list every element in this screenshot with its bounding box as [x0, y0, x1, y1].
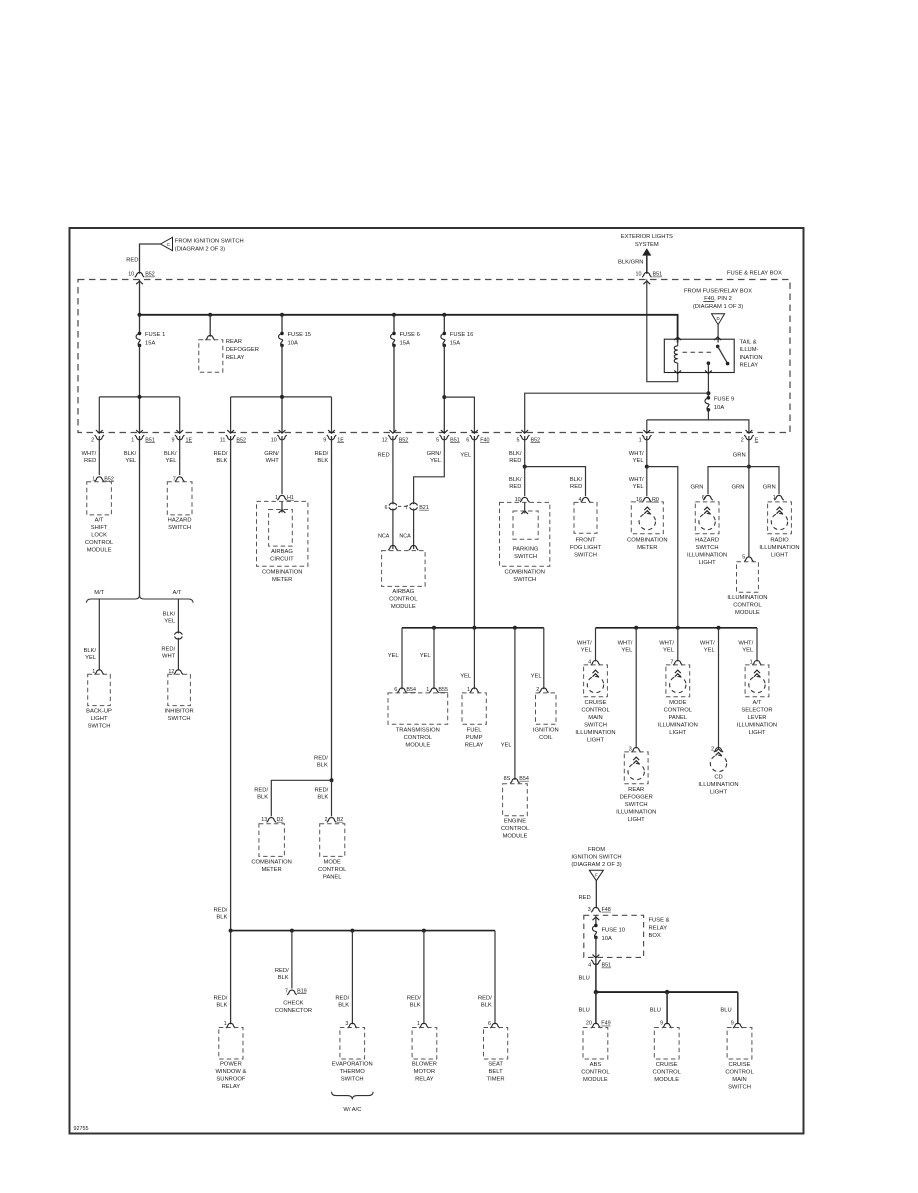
wire RED/BLK to seat belt timer	[494, 931, 496, 1025]
svg-text:6: 6	[394, 687, 397, 693]
junction GRN	[747, 465, 751, 469]
svg-text:HAZARD: HAZARD	[168, 518, 192, 524]
wire BLK/YEL to hazard switch	[179, 436, 181, 475]
svg-text:DEFOGGER: DEFOGGER	[620, 794, 653, 800]
svg-text:RELAY: RELAY	[740, 362, 759, 368]
svg-text:CD: CD	[714, 774, 722, 780]
svg-text:BLK: BLK	[338, 1003, 349, 1009]
wire into fuse 10	[595, 915, 597, 925]
svg-text:MODULE: MODULE	[391, 604, 416, 610]
wire to terminal 2	[98, 397, 100, 433]
svg-text:HAZARD: HAZARD	[695, 538, 719, 544]
split junction under fuse 16	[442, 395, 446, 399]
wire to terminal 9 1E right	[331, 397, 333, 433]
svg-text:D2: D2	[277, 817, 284, 823]
svg-text:GRN/: GRN/	[264, 451, 279, 457]
svg-text:BLK: BLK	[410, 1003, 421, 1009]
svg-text:CONNECTOR: CONNECTOR	[275, 1008, 312, 1014]
svg-text:RELAY: RELAY	[415, 1077, 434, 1083]
svg-text:1: 1	[131, 437, 134, 443]
svg-text:CIRCUIT: CIRCUIT	[270, 557, 294, 563]
svg-text:GRN: GRN	[733, 453, 746, 459]
fuse F1 15A	[138, 332, 142, 336]
fuse F10 10A	[594, 924, 598, 928]
svg-text:RELAY: RELAY	[649, 925, 668, 931]
svg-text:BELT: BELT	[489, 1069, 504, 1075]
svg-text:FUSE 16: FUSE 16	[450, 332, 474, 338]
svg-text:F48: F48	[602, 907, 611, 913]
svg-text:(DIAGRAM 1 OF 3): (DIAGRAM 1 OF 3)	[693, 304, 743, 310]
fuse box bottom terminal 2 E	[746, 430, 753, 433]
svg-text:BLK/: BLK/	[164, 451, 177, 457]
svg-text:8S: 8S	[504, 776, 511, 782]
svg-text:B54: B54	[519, 776, 529, 782]
svg-text:WHT/: WHT/	[629, 477, 644, 483]
wire WHT/RED to A/T shift lock control module	[98, 436, 100, 475]
wire from fuse 1 to split	[139, 345, 141, 432]
svg-text:BLK/: BLK/	[163, 612, 176, 618]
svg-text:CONTROL: CONTROL	[389, 597, 418, 603]
wire from terminal B51 down and over to relay coil	[647, 280, 678, 382]
svg-text:ILLUMINATION: ILLUMINATION	[737, 722, 777, 728]
wire RED/WHT to inhibitor switch	[177, 638, 179, 671]
wire from relay output to terminal 5 B52	[525, 393, 709, 432]
svg-text:ILLUMINATION: ILLUMINATION	[658, 722, 698, 728]
svg-text:YEL: YEL	[621, 648, 633, 654]
svg-text:MAIN: MAIN	[732, 1077, 747, 1083]
relay internal dashed link	[683, 351, 714, 353]
svg-text:WHT/: WHT/	[629, 451, 644, 457]
svg-text:9: 9	[323, 437, 326, 443]
svg-text:METER: METER	[637, 545, 657, 551]
svg-text:YEL: YEL	[430, 458, 442, 464]
svg-text:PARKING: PARKING	[513, 547, 539, 553]
WHT/YEL bus junction	[634, 626, 638, 630]
svg-text:YEL: YEL	[663, 648, 675, 654]
svg-text:SWITCH: SWITCH	[574, 553, 597, 559]
combination meter (dashed box)	[257, 501, 308, 566]
svg-text:SWITCH: SWITCH	[168, 716, 191, 722]
wire from bus to fuse 1	[139, 315, 141, 334]
inhibitor switch (dashed box)	[168, 674, 191, 705]
svg-text:MODULE: MODULE	[87, 548, 112, 554]
svg-text:MOTOR: MOTOR	[414, 1069, 435, 1075]
ignition coil (dashed box)	[536, 693, 557, 724]
svg-text:A/T: A/T	[752, 700, 761, 706]
svg-text:1E: 1E	[186, 437, 193, 443]
fuse F15 10A	[280, 332, 284, 336]
mode control panel illumination light	[677, 628, 679, 662]
svg-text:WHT/: WHT/	[81, 451, 96, 457]
svg-text:IGNITION SWITCH: IGNITION SWITCH	[571, 854, 621, 860]
wire BLK/YEL A/T branch	[177, 599, 179, 634]
svg-text:9: 9	[172, 437, 175, 443]
svg-text:BLK: BLK	[216, 915, 227, 921]
svg-text:10A: 10A	[714, 405, 724, 411]
svg-text:LOCK: LOCK	[91, 533, 107, 539]
wire to terminal 11 B52	[230, 397, 232, 433]
fuse box bottom terminal 2	[96, 430, 103, 433]
svg-text:MODULE: MODULE	[583, 1077, 608, 1083]
evaporation thermo switch (dashed box)	[340, 1028, 365, 1060]
svg-text:BLU: BLU	[579, 1008, 590, 1014]
svg-text:LIGHT: LIGHT	[771, 553, 789, 559]
svg-text:RED/: RED/	[161, 647, 175, 653]
svg-text:RELAY: RELAY	[465, 743, 484, 749]
svg-text:THERMO: THERMO	[340, 1069, 366, 1075]
wire GRN/YEL from terminal 5 B51 to airbag control module pin 7	[414, 436, 445, 504]
svg-text:10A: 10A	[288, 341, 298, 347]
fuse F6 15A	[392, 332, 396, 336]
svg-text:ENGINE: ENGINE	[504, 819, 526, 825]
svg-text:SWITCH: SWITCH	[88, 724, 111, 730]
svg-text:CRUISE: CRUISE	[585, 700, 607, 706]
svg-text:WHT: WHT	[162, 654, 176, 660]
svg-text:REAR: REAR	[226, 339, 242, 345]
svg-text:E: E	[755, 437, 759, 443]
wire YEL to ignition coil pin 2	[543, 628, 545, 689]
svg-text:PANEL: PANEL	[669, 715, 688, 721]
svg-text:15A: 15A	[145, 341, 155, 347]
svg-text:LIGHT: LIGHT	[628, 817, 646, 823]
svg-text:CONTROL: CONTROL	[733, 603, 762, 609]
svg-text:FUSE 15: FUSE 15	[288, 332, 312, 338]
svg-text:B51: B51	[145, 437, 155, 443]
bottom bus junction	[422, 929, 426, 933]
wire from fuse 6 to terminal 12 B52	[393, 345, 395, 432]
svg-text:ABS: ABS	[590, 1062, 602, 1068]
svg-text:SWITCH: SWITCH	[514, 554, 537, 560]
wire from bus to fuse 16	[443, 315, 445, 334]
airbag control module (dashed box)	[382, 551, 426, 587]
svg-text:COMBINATION: COMBINATION	[251, 860, 291, 866]
svg-text:NCA: NCA	[378, 534, 390, 540]
svg-text:FUSE 6: FUSE 6	[400, 332, 420, 338]
svg-text:MAIN: MAIN	[588, 715, 603, 721]
svg-text:FUSE 10: FUSE 10	[602, 928, 626, 934]
svg-text:5: 5	[436, 437, 439, 443]
svg-text:RED/: RED/	[314, 788, 328, 794]
svg-text:4: 4	[588, 963, 591, 969]
connector triangle D from fuse/relay box	[712, 314, 725, 325]
svg-text:RED: RED	[509, 458, 521, 464]
svg-text:CONTROL: CONTROL	[85, 540, 114, 546]
bus junction	[442, 313, 446, 317]
svg-text:SWITCH: SWITCH	[728, 1085, 751, 1091]
svg-text:12: 12	[382, 437, 388, 443]
wire from bus to fuse 6	[393, 315, 395, 334]
branch to front fog light switch	[525, 467, 586, 497]
svg-text:10: 10	[128, 272, 134, 278]
wire RED/BLK from terminal 11 B52 (long)	[230, 436, 232, 931]
svg-text:CHECK: CHECK	[283, 1001, 303, 1007]
wire YEL to engine control module pin 8S B54	[514, 628, 516, 780]
svg-text:COMBINATION: COMBINATION	[627, 538, 667, 544]
svg-text:GRN: GRN	[691, 485, 704, 491]
cruise control module (dashed box)	[654, 1028, 679, 1060]
svg-text:SHIFT: SHIFT	[91, 525, 108, 531]
svg-text:MODULE: MODULE	[405, 743, 430, 749]
split bus under fuse 15	[231, 396, 332, 398]
svg-text:WHT/: WHT/	[738, 641, 753, 647]
fuel pump relay (dashed box)	[462, 693, 486, 724]
svg-text:CONTROL: CONTROL	[725, 1070, 754, 1076]
transmission control module (dashed box)	[388, 693, 448, 724]
svg-text:INATION: INATION	[740, 355, 763, 361]
svg-text:GRN/: GRN/	[427, 451, 442, 457]
svg-text:SWITCH: SWITCH	[625, 802, 648, 808]
wire GRN from terminal 2 E	[748, 436, 750, 467]
svg-text:BLK: BLK	[278, 975, 289, 981]
svg-text:SWITCH: SWITCH	[513, 577, 536, 583]
svg-text:WHT/: WHT/	[577, 641, 592, 647]
svg-text:YEL: YEL	[742, 648, 754, 654]
fuse box bottom terminal 10	[279, 430, 286, 433]
svg-text:RELAY: RELAY	[222, 1084, 241, 1090]
svg-text:LIGHT: LIGHT	[587, 737, 605, 743]
svg-text:METER: METER	[272, 577, 292, 583]
wire from fuse 16 to split	[443, 345, 445, 432]
fuse box bottom terminal 1 B51	[136, 430, 143, 433]
svg-text:CONTROL: CONTROL	[653, 1070, 682, 1076]
svg-text:YEL: YEL	[85, 655, 97, 661]
svg-text:1: 1	[639, 437, 642, 443]
svg-text:SELECTOR: SELECTOR	[741, 707, 772, 713]
svg-text:F49: F49	[601, 1021, 610, 1027]
YEL bus junction	[432, 626, 436, 630]
svg-text:2: 2	[741, 437, 744, 443]
svg-text:6: 6	[488, 1021, 491, 1027]
wire BLK/YEL M/T branch to back-up light switch	[98, 599, 100, 671]
airbag circuit inner box	[281, 501, 283, 512]
svg-text:ILLUMINATION: ILLUMINATION	[687, 553, 727, 559]
branch GRN to radio illumination light	[749, 467, 779, 495]
fuse box bottom terminal 1	[643, 430, 650, 433]
wire RED continues to module	[392, 509, 394, 550]
svg-text:BLK/: BLK/	[509, 451, 522, 457]
svg-text:COMBINATION: COMBINATION	[262, 570, 302, 576]
WHT/YEL bus junction	[676, 626, 680, 630]
svg-text:10A: 10A	[602, 936, 612, 942]
cruise control main switch illumination light	[595, 628, 597, 662]
outer border frame	[70, 228, 804, 1134]
fuse box bottom terminal 11 B52	[227, 430, 234, 433]
wire from bus to fuse 15	[281, 315, 283, 334]
bottom bus junction	[350, 929, 354, 933]
svg-text:(DIAGRAM 2 OF 3): (DIAGRAM 2 OF 3)	[175, 246, 225, 252]
wire RED/BLK to check connector pin 7 B19	[291, 931, 293, 989]
svg-text:BLK/: BLK/	[84, 648, 97, 654]
hazard switch illumination light (dashed box)	[695, 502, 719, 534]
svg-text:BLK: BLK	[317, 763, 328, 769]
YEL bus junction	[472, 626, 476, 630]
A/T selector lever illumination light	[756, 628, 758, 662]
radio illumination light (dashed box)	[768, 502, 792, 534]
fuse box bottom terminal 9 1E	[328, 430, 335, 433]
wire RED/BLK to power window and sunroof relay	[230, 931, 232, 1025]
svg-text:METER: METER	[261, 867, 281, 873]
svg-text:COIL: COIL	[539, 735, 553, 741]
svg-text:RED: RED	[579, 895, 591, 901]
svg-text:B52: B52	[531, 437, 541, 443]
svg-text:SEAT: SEAT	[488, 1062, 503, 1068]
svg-text:BACK-UP: BACK-UP	[86, 709, 112, 715]
svg-text:WHT/: WHT/	[659, 641, 674, 647]
wire BLU to ABS control module pin 20 F49	[595, 992, 597, 1024]
svg-text:YEL: YEL	[531, 674, 543, 680]
svg-text:BLK: BLK	[481, 1003, 492, 1009]
wire BLU to cruise control main switch pin 9	[737, 992, 739, 1024]
svg-text:CONTROL: CONTROL	[581, 1070, 610, 1076]
svg-text:CONTROL: CONTROL	[404, 735, 433, 741]
wire GRN to illumination control module	[748, 467, 750, 557]
svg-text:AIRBAG: AIRBAG	[392, 589, 414, 595]
svg-text:WHT: WHT	[266, 458, 280, 464]
svg-text:B19: B19	[297, 988, 307, 994]
YEL distribution bus	[402, 627, 544, 629]
svg-text:RED: RED	[84, 458, 96, 464]
dashes between in-line connectors	[398, 505, 408, 507]
svg-text:BLU: BLU	[579, 976, 590, 982]
wire from fuse 9 to split	[707, 410, 709, 420]
svg-text:5: 5	[517, 437, 520, 443]
svg-text:TRANSMISSION: TRANSMISSION	[396, 728, 440, 734]
svg-text:FROM FUSE/RELAY BOX: FROM FUSE/RELAY BOX	[684, 288, 752, 294]
svg-text:BOX: BOX	[649, 933, 661, 939]
wire YEL to fuel pump relay pin 1	[473, 628, 475, 689]
rear defogger relay (dashed box)	[199, 340, 223, 373]
svg-text:D: D	[717, 316, 720, 321]
junction WHT/YEL	[645, 465, 649, 469]
svg-text:RED/: RED/	[214, 996, 228, 1002]
svg-text:RED: RED	[509, 484, 521, 490]
CD illumination light	[718, 628, 720, 749]
svg-text:LIGHT: LIGHT	[699, 560, 717, 566]
seat belt timer (dashed box)	[484, 1028, 508, 1060]
svg-text:FUSE 1: FUSE 1	[145, 332, 165, 338]
svg-text:YEL: YEL	[125, 458, 137, 464]
wire WHT/YEL from terminal 1	[646, 436, 648, 467]
svg-text:B21: B21	[419, 505, 429, 511]
svg-text:BLK: BLK	[317, 795, 328, 801]
svg-text:RED/: RED/	[214, 451, 228, 457]
A/T shift lock control module (dashed box)	[87, 482, 112, 515]
svg-text:ILLUMINATION: ILLUMINATION	[616, 809, 656, 815]
svg-text:YEL: YEL	[460, 453, 472, 459]
svg-text:MODE: MODE	[669, 700, 687, 706]
ABS control module (dashed box)	[583, 1028, 608, 1060]
svg-text:BLK: BLK	[317, 458, 328, 464]
svg-text:C: C	[167, 242, 170, 247]
svg-text:SYSTEM: SYSTEM	[635, 242, 659, 248]
svg-text:CRUISE: CRUISE	[656, 1062, 678, 1068]
branch RED/BLK to combination meter pin 13 D2	[271, 780, 331, 816]
svg-text:DEFOGGER: DEFOGGER	[226, 347, 259, 353]
svg-text:RED: RED	[377, 453, 389, 459]
svg-text:WHT/: WHT/	[618, 641, 633, 647]
svg-text:PUMP: PUMP	[466, 735, 483, 741]
svg-text:W/ A/C: W/ A/C	[343, 1107, 361, 1113]
svg-text:FRONT: FRONT	[576, 538, 596, 544]
connector triangle C from ignition switch	[161, 237, 173, 250]
wire to terminal 9 1E	[179, 397, 181, 433]
wire from triangle D to relay switch	[717, 325, 719, 343]
wire GRN/WHT to combination meter airbag circuit	[281, 436, 283, 494]
svg-text:SUNROOF: SUNROOF	[216, 1077, 245, 1083]
svg-text:BLK: BLK	[216, 1003, 227, 1009]
svg-text:1E: 1E	[337, 437, 344, 443]
svg-text:92755: 92755	[74, 1126, 89, 1132]
fuse box bottom terminal 9 1E	[176, 430, 183, 433]
split bus under fuse 1	[99, 396, 179, 398]
svg-text:BLOWER: BLOWER	[412, 1062, 437, 1068]
wire BLU to junction	[595, 963, 597, 992]
svg-text:15A: 15A	[450, 341, 460, 347]
svg-text:B52: B52	[145, 272, 155, 278]
in-line connector on inhibitor switch wire	[175, 632, 183, 635]
svg-text:(DIAGRAM 2 OF 3): (DIAGRAM 2 OF 3)	[571, 862, 621, 868]
parking switch inner box	[524, 502, 526, 513]
wire RED to airbag control module pin 6	[392, 436, 394, 504]
svg-text:B51: B51	[450, 437, 460, 443]
svg-text:LIGHT: LIGHT	[710, 789, 728, 795]
tail and illumination relay box	[664, 339, 734, 372]
junction at relay output	[706, 391, 710, 395]
svg-text:RED/: RED/	[478, 996, 492, 1002]
svg-text:SWITCH: SWITCH	[168, 525, 191, 531]
svg-text:YEL: YEL	[388, 653, 400, 659]
svg-text:LEVER: LEVER	[747, 715, 766, 721]
svg-text:MODULE: MODULE	[654, 1077, 679, 1083]
wire from terminal B52 down to main bus	[139, 280, 141, 315]
main power bus inside fuse box	[140, 315, 678, 343]
svg-text:H1: H1	[287, 495, 294, 501]
svg-text:SWITCH: SWITCH	[696, 545, 719, 551]
svg-text:11: 11	[220, 437, 226, 443]
blower motor relay (dashed box)	[412, 1028, 437, 1060]
cruise control main switch (dashed box)	[727, 1028, 752, 1060]
svg-text:RED: RED	[570, 484, 582, 490]
wire GRN/YEL continues to module	[413, 509, 415, 550]
svg-text:YEL: YEL	[581, 648, 593, 654]
svg-text:FUSE & RELAY BOX: FUSE & RELAY BOX	[727, 271, 782, 277]
svg-text:7: 7	[405, 505, 408, 511]
svg-text:POWER: POWER	[220, 1062, 242, 1068]
svg-text:EVAPORATION: EVAPORATION	[332, 1062, 373, 1068]
svg-text:A/T: A/T	[172, 590, 181, 596]
fuse F9 10A	[707, 393, 709, 398]
svg-text:CONTROL: CONTROL	[318, 867, 347, 873]
svg-text:RED/: RED/	[214, 908, 228, 914]
svg-text:F: F	[595, 872, 598, 877]
svg-text:CONTROL: CONTROL	[581, 707, 610, 713]
svg-text:RED/: RED/	[275, 968, 289, 974]
connector triangle F from ignition switch	[589, 870, 603, 881]
small fuse and relay box (dashed)	[584, 915, 644, 957]
wire YEL from terminal 6 F40 (long)	[473, 436, 475, 628]
svg-text:LIGHT: LIGHT	[669, 730, 687, 736]
WHT/YEL bus junction	[717, 626, 721, 630]
combination switch (dashed box)	[500, 502, 550, 566]
svg-text:TAIL &: TAIL &	[740, 340, 757, 346]
svg-text:B55: B55	[438, 687, 448, 693]
combination meter (dashed box)	[259, 824, 285, 857]
svg-text:9: 9	[731, 1021, 734, 1027]
wire BLU to cruise control module pin 9	[666, 992, 668, 1024]
relay output wire	[707, 363, 709, 393]
relay switch contact	[714, 337, 721, 340]
wire BLK/RED to parking switch	[524, 467, 526, 497]
